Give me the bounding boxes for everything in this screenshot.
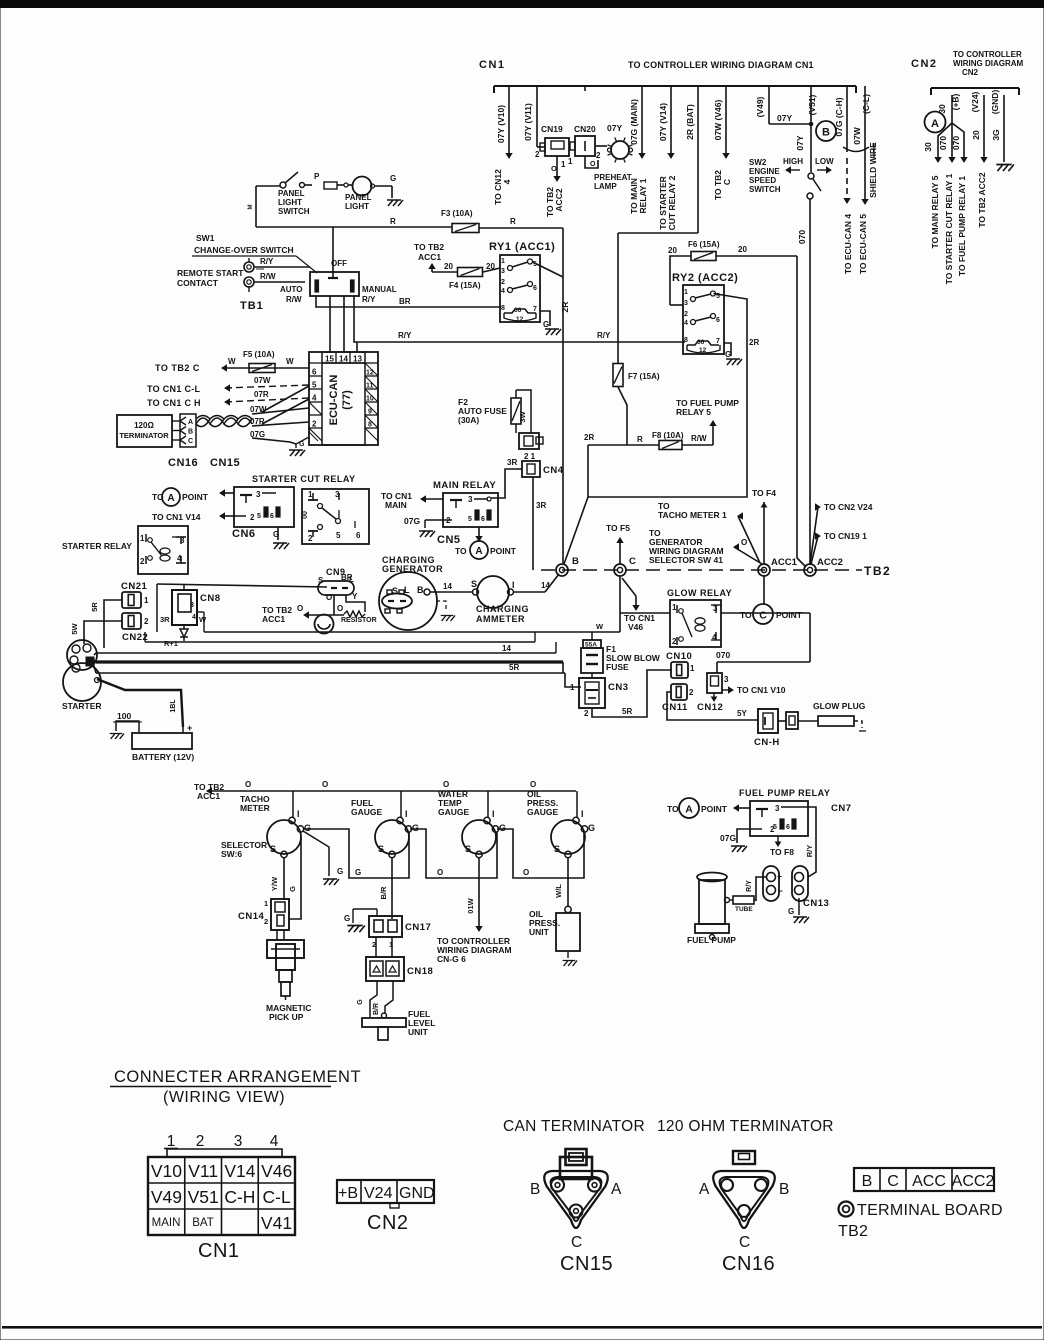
- svg-text:G: G: [337, 867, 343, 876]
- connector CN16 120 ohm terminator: [699, 1151, 789, 1275]
- svg-text:A: A: [611, 1181, 622, 1198]
- svg-text:3W: 3W: [518, 410, 527, 422]
- svg-text:+: +: [777, 871, 782, 881]
- svg-text:30: 30: [923, 142, 933, 152]
- svg-text:CN16: CN16: [168, 457, 198, 469]
- svg-text:PREHEAT: PREHEAT: [594, 173, 632, 182]
- wire auto side BR to RY1 pin8: [316, 296, 501, 307]
- svg-text:CAN TERMINATOR: CAN TERMINATOR: [503, 1118, 645, 1135]
- wire R/Y remote to switch: [254, 257, 310, 269]
- svg-text:2 1: 2 1: [524, 452, 536, 461]
- svg-text:TO F4: TO F4: [752, 488, 776, 498]
- connector CN11: [662, 684, 694, 713]
- terminator pins A B C: [172, 414, 196, 447]
- svg-text:G: G: [588, 823, 595, 833]
- svg-text:3: 3: [190, 602, 194, 609]
- svg-text:7: 7: [716, 338, 720, 345]
- svg-text:C: C: [722, 179, 732, 185]
- fuse F4 (15A): [432, 262, 500, 290]
- svg-text:070: 070: [716, 650, 730, 660]
- svg-text:V11: V11: [188, 1161, 218, 1181]
- svg-text:O: O: [437, 868, 443, 877]
- svg-text:3: 3: [724, 675, 729, 684]
- svg-text:O: O: [337, 604, 343, 613]
- svg-text:3: 3: [775, 804, 780, 813]
- svg-text:TERMINATOR: TERMINATOR: [119, 431, 169, 440]
- connector CN1 pin table: [148, 1133, 295, 1262]
- svg-text:07Y: 07Y: [607, 123, 622, 133]
- svg-text:MAIN: MAIN: [152, 1217, 181, 1229]
- svg-text:(77): (77): [341, 390, 353, 410]
- svg-text:1: 1: [690, 664, 695, 673]
- wire tacho S to CN14: [270, 858, 284, 899]
- ground CN17: [347, 926, 365, 933]
- svg-text:LIGHT: LIGHT: [345, 202, 369, 211]
- connector CN4: [507, 458, 564, 477]
- svg-text:TO CONTROLLER WIRING DIAGRAM: TO CONTROLLER WIRING DIAGRAM CN1: [628, 60, 814, 70]
- svg-text:S: S: [318, 576, 324, 585]
- gauge TACHO METER: [240, 791, 311, 858]
- fuse F8 (10A): [588, 431, 713, 450]
- svg-text:3: 3: [256, 490, 261, 499]
- ground ECU-CAN: [289, 437, 309, 456]
- svg-text:V14: V14: [224, 1161, 255, 1181]
- svg-text:R: R: [637, 435, 643, 444]
- note TO GENERATOR WIRING DIAGRAM SELECTOR SW 41: [649, 528, 762, 565]
- note TO FUEL PUMP RELAY 5: [676, 398, 739, 445]
- node C on TB2: [614, 556, 636, 576]
- svg-text:BR: BR: [341, 573, 353, 582]
- connector CN15 CAN terminator: [530, 1149, 622, 1275]
- motor starter: [62, 640, 102, 711]
- svg-text:ECU-CAN: ECU-CAN: [328, 375, 340, 426]
- svg-text:MANUAL: MANUAL: [362, 285, 397, 294]
- relay glow relay: [667, 588, 732, 647]
- svg-text:ACC1: ACC1: [197, 791, 220, 801]
- tube between pump and plug: [729, 896, 756, 913]
- svg-text:BAT: BAT: [192, 1217, 214, 1229]
- svg-text:GAUGE: GAUGE: [527, 807, 559, 817]
- lamp PANEL LIGHT: [345, 174, 396, 211]
- svg-text:TO CN1 V10: TO CN1 V10: [737, 685, 786, 695]
- svg-text:TO TB2: TO TB2: [414, 242, 444, 252]
- circle C point under ACC1: [740, 576, 803, 624]
- note TO F8: [770, 836, 794, 857]
- svg-text:1: 1: [501, 258, 505, 265]
- svg-text:CN18: CN18: [407, 966, 433, 977]
- relay CN5 main relay: [433, 480, 498, 527]
- svg-text:CN14: CN14: [238, 911, 265, 922]
- svg-text:5: 5: [312, 381, 317, 390]
- svg-text:G: G: [499, 823, 506, 833]
- svg-text:STARTER: STARTER: [62, 701, 102, 711]
- svg-text:1: 1: [140, 534, 145, 543]
- svg-text:CN1: CN1: [479, 59, 506, 71]
- svg-text:SPEED: SPEED: [749, 176, 776, 185]
- svg-text:POINT: POINT: [490, 546, 517, 556]
- svg-text:SW2: SW2: [749, 158, 767, 167]
- svg-text:CONTACT: CONTACT: [177, 278, 219, 288]
- svg-text:V46: V46: [261, 1161, 292, 1181]
- gauge OIL PRESS GAUGE: [527, 789, 595, 858]
- note TO CN1 MAIN: [381, 491, 443, 510]
- svg-text:PANEL: PANEL: [345, 193, 372, 202]
- svg-text:P: P: [314, 172, 320, 181]
- svg-text:TO CN2 V24: TO CN2 V24: [824, 502, 873, 512]
- svg-text:TO ECU-CAN 4: TO ECU-CAN 4: [843, 214, 853, 275]
- ground tacho G: [303, 831, 343, 885]
- wire fuel S to CN17 B/R: [379, 858, 392, 919]
- wire tacho G to CN14 pin2: [288, 837, 301, 919]
- svg-text:20: 20: [738, 245, 747, 254]
- svg-text:CN-G 6: CN-G 6: [437, 954, 466, 964]
- svg-text:F5 (10A): F5 (10A): [243, 350, 275, 359]
- svg-text:O: O: [741, 538, 747, 547]
- connector CN22: [122, 613, 149, 643]
- note TO F5: [606, 523, 630, 564]
- svg-text:07W (V46): 07W (V46): [713, 100, 723, 141]
- wire CN3 pin2 to CN10 5R: [592, 670, 672, 717]
- svg-text:TO F8: TO F8: [770, 847, 794, 857]
- wire water temp S to controller 01W: [466, 858, 482, 931]
- svg-text:(V24): (V24): [970, 91, 980, 112]
- note TO CN1 V46: [622, 578, 655, 632]
- svg-text:2: 2: [250, 513, 255, 522]
- svg-text:GLOW PLUG: GLOW PLUG: [813, 701, 866, 711]
- svg-text:15: 15: [325, 355, 334, 364]
- svg-text:F7 (15A): F7 (15A): [628, 372, 660, 381]
- svg-text:MAIN: MAIN: [385, 500, 407, 510]
- svg-text:A: A: [685, 804, 693, 816]
- svg-text:GND: GND: [399, 1185, 435, 1202]
- svg-text:POINT: POINT: [776, 610, 803, 620]
- svg-text:2: 2: [196, 1133, 205, 1150]
- wire generator B to ammeter S 14: [430, 582, 473, 592]
- svg-text:3: 3: [468, 495, 473, 504]
- svg-text:9: 9: [368, 409, 372, 416]
- svg-text:120Ω: 120Ω: [134, 421, 154, 430]
- svg-text:TO CN1 V14: TO CN1 V14: [152, 512, 201, 522]
- svg-text:O: O: [322, 780, 328, 789]
- wire CN7 pin2 to ground 07G: [720, 829, 750, 852]
- wire TO CN1 C H dashed: [147, 390, 309, 408]
- wire CN13 to ground G: [788, 898, 809, 923]
- svg-text:F4 (15A): F4 (15A): [449, 281, 481, 290]
- svg-text:LIGHT: LIGHT: [278, 198, 302, 207]
- terminal board TB2 table: [854, 1168, 994, 1191]
- svg-text:BR: BR: [399, 297, 411, 306]
- svg-text:O: O: [551, 164, 557, 173]
- svg-text:SW1: SW1: [196, 233, 215, 243]
- svg-text:WIRING DIAGRAM: WIRING DIAGRAM: [953, 59, 1024, 68]
- svg-text:3: 3: [684, 300, 688, 307]
- svg-text:B: B: [417, 585, 424, 595]
- svg-text:B/R: B/R: [373, 1003, 380, 1015]
- svg-text:B: B: [572, 556, 579, 567]
- svg-text:01W: 01W: [466, 897, 475, 913]
- relay RY2 (ACC2): [672, 272, 738, 354]
- svg-text:2R: 2R: [560, 302, 570, 313]
- wire 07Y (V14) to starter cut relay 2: [658, 91, 677, 230]
- svg-text:CN19: CN19: [541, 124, 563, 134]
- svg-text:TO CONTROLLER: TO CONTROLLER: [953, 50, 1022, 59]
- svg-text:20: 20: [668, 246, 677, 255]
- svg-text:(V49): (V49): [755, 96, 765, 117]
- svg-text:3G: 3G: [991, 129, 1001, 141]
- note TO CN2 V24: [810, 502, 873, 564]
- svg-text:R/Y: R/Y: [805, 845, 814, 858]
- svg-text:I: I: [297, 809, 300, 819]
- svg-text:7: 7: [533, 306, 537, 313]
- svg-text:PICK UP: PICK UP: [269, 1012, 304, 1022]
- fuse F7 (15A): [613, 233, 660, 445]
- ground CN5: [419, 531, 435, 537]
- connector CN-H: [754, 709, 780, 748]
- wire glow relay pin1 to C vertical: [620, 612, 670, 614]
- svg-text:S: S: [471, 579, 477, 589]
- svg-text:ACC1: ACC1: [262, 614, 285, 624]
- wire 14 bus y653: [96, 642, 556, 653]
- svg-text:12: 12: [516, 316, 524, 323]
- svg-text:CN15: CN15: [560, 1253, 613, 1275]
- svg-text:CN16: CN16: [722, 1253, 775, 1275]
- connector CN2 comb: [931, 88, 1019, 95]
- note TO TB2 ACC1: [414, 242, 444, 272]
- svg-text:O: O: [523, 868, 529, 877]
- svg-text:2R (BAT): 2R (BAT): [685, 104, 695, 140]
- connector CN2 pin table: [337, 1180, 435, 1234]
- svg-text:O: O: [590, 161, 596, 168]
- svg-text:ACC2: ACC2: [554, 188, 564, 211]
- connector CN10: [666, 651, 695, 678]
- svg-text:G: G: [543, 320, 549, 329]
- glow plug: [798, 701, 866, 731]
- wires terminator to ECU pins: [250, 386, 309, 444]
- svg-text:G: G: [788, 907, 794, 916]
- svg-text:G: G: [273, 530, 279, 539]
- note TO TACHO METER 1: [658, 501, 760, 563]
- svg-text:20: 20: [486, 262, 495, 271]
- svg-text:2: 2: [264, 917, 268, 926]
- wire CN2 3G (GND): [990, 90, 1004, 162]
- svg-text:A: A: [167, 493, 174, 504]
- svg-text:ENGINE: ENGINE: [749, 167, 780, 176]
- svg-text:TO MAIN RELAY 5: TO MAIN RELAY 5: [930, 175, 940, 248]
- svg-text:07W: 07W: [254, 376, 271, 385]
- wire 07W (C-L) to ECU-CAN 5: [852, 91, 871, 274]
- wire F6 right to TB2 ACC2: [797, 256, 806, 567]
- svg-text:CN2: CN2: [911, 58, 938, 70]
- svg-text:20: 20: [444, 262, 453, 271]
- svg-text:2: 2: [501, 279, 505, 286]
- svg-text:B: B: [862, 1173, 873, 1190]
- svg-text:R: R: [510, 217, 516, 226]
- svg-text:5: 5: [336, 531, 341, 540]
- svg-text:07W: 07W: [852, 126, 862, 144]
- svg-text:O: O: [297, 604, 303, 613]
- svg-text:R/Y: R/Y: [260, 257, 274, 266]
- svg-text:C: C: [629, 556, 636, 567]
- svg-text:STARTER RELAY: STARTER RELAY: [62, 541, 132, 551]
- svg-text:CN11: CN11: [662, 702, 688, 713]
- svg-text:CN10: CN10: [666, 651, 692, 662]
- connector CN1 comb: [494, 86, 865, 93]
- svg-text:66: 66: [514, 307, 522, 314]
- svg-text:4: 4: [192, 614, 196, 621]
- svg-text:R/Y: R/Y: [597, 331, 611, 340]
- svg-text:LOW: LOW: [815, 157, 834, 166]
- svg-text:3R: 3R: [536, 501, 546, 510]
- svg-text:CN2: CN2: [962, 68, 979, 77]
- ground RY1: [545, 329, 561, 335]
- svg-text:FUEL PUMP: FUEL PUMP: [687, 935, 736, 945]
- relay starter cut relay contact detail: [302, 489, 369, 544]
- svg-text:5W: 5W: [70, 622, 79, 634]
- svg-text:SHIELD WIRE: SHIELD WIRE: [868, 142, 878, 198]
- sensor fuel level unit: [357, 981, 435, 1040]
- svg-text:C: C: [739, 1234, 750, 1251]
- svg-text:RY1 (ACC1): RY1 (ACC1): [489, 241, 555, 253]
- svg-text:13: 13: [353, 355, 362, 364]
- ground oil press unit: [563, 961, 577, 966]
- svg-text:S: S: [554, 844, 560, 854]
- note SW2 ENGINE SPEED SWITCH: [749, 158, 781, 194]
- svg-text:2R: 2R: [584, 433, 594, 442]
- svg-text:12: 12: [699, 347, 707, 354]
- svg-text:3: 3: [234, 1133, 243, 1150]
- wire CN2 20 (V24): [970, 91, 987, 227]
- pump FUEL PUMP: [687, 873, 736, 946]
- 120 ohm terminator box: [117, 415, 172, 447]
- svg-text:V41: V41: [261, 1213, 292, 1233]
- connector CN8: [160, 584, 221, 625]
- svg-text:M: M: [248, 205, 254, 210]
- svg-text:ACC2: ACC2: [952, 1173, 995, 1190]
- wire CN4 3R down: [533, 477, 546, 570]
- svg-text:R: R: [390, 217, 396, 226]
- svg-text:S: S: [378, 844, 384, 854]
- svg-text:O: O: [443, 780, 449, 789]
- svg-text:6: 6: [533, 285, 537, 292]
- shield wire arc: [843, 142, 878, 198]
- note TO A POINT (CN6): [152, 488, 234, 506]
- svg-text:CN21: CN21: [121, 581, 148, 592]
- svg-text:2: 2: [584, 709, 589, 718]
- svg-text:REMOTE START: REMOTE START: [177, 268, 244, 278]
- node ACC1 on TB2: [758, 557, 798, 576]
- svg-text:6: 6: [356, 531, 361, 540]
- fuse F1 slow blow fuse: [581, 632, 661, 673]
- wire CN2 +B 30 fork: [923, 93, 967, 162]
- svg-text:10: 10: [366, 396, 374, 403]
- svg-text:TUBE: TUBE: [735, 906, 753, 913]
- svg-text:G: G: [412, 823, 419, 833]
- wire R bus from panel circuit: [248, 186, 452, 227]
- svg-text:METER: METER: [240, 803, 270, 813]
- svg-text:07Y (V11): 07Y (V11): [523, 103, 533, 141]
- svg-text:G: G: [357, 999, 364, 1005]
- svg-text:S: S: [270, 844, 276, 854]
- svg-text:07G: 07G: [404, 516, 420, 526]
- svg-text:R/Y: R/Y: [362, 295, 376, 304]
- wire RY2 pin7 to ground: [724, 343, 731, 359]
- wire CN5 pin2 to ground: [404, 516, 443, 528]
- svg-text:5R: 5R: [90, 602, 99, 612]
- svg-text:07G (MAIN): 07G (MAIN): [629, 99, 639, 145]
- resistor RESISTOR: [341, 595, 377, 624]
- svg-text:W/L: W/L: [554, 884, 563, 898]
- svg-text:8: 8: [684, 337, 688, 344]
- svg-text:14: 14: [443, 582, 452, 591]
- svg-text:G: G: [344, 914, 350, 923]
- note TO F4: [752, 488, 776, 564]
- svg-text:6: 6: [481, 516, 485, 523]
- svg-text:TB2: TB2: [864, 564, 891, 578]
- svg-text:B: B: [779, 1181, 789, 1198]
- svg-text:1: 1: [561, 160, 566, 169]
- svg-text:3R: 3R: [507, 458, 517, 467]
- connector CN9: [318, 567, 358, 602]
- svg-text:C: C: [759, 610, 767, 622]
- svg-text:CN20: CN20: [574, 124, 596, 134]
- svg-text:R/W: R/W: [286, 295, 302, 304]
- svg-text:F8 (10A): F8 (10A): [652, 431, 684, 440]
- relay starter relay: [62, 526, 188, 574]
- svg-text:I: I: [581, 809, 584, 819]
- svg-text:O: O: [326, 593, 332, 602]
- wire ACC2 down to CN12 070: [716, 613, 810, 673]
- svg-text:FUEL PUMP RELAY: FUEL PUMP RELAY: [739, 788, 830, 798]
- svg-text:L: L: [404, 585, 410, 595]
- wire (V49): [755, 91, 813, 126]
- svg-text:R/W: R/W: [691, 434, 707, 443]
- svg-text:6: 6: [786, 824, 790, 831]
- svg-text:I: I: [512, 580, 515, 590]
- wire CN5 to A point: [476, 527, 482, 541]
- svg-text:(WIRING VIEW): (WIRING VIEW): [163, 1089, 285, 1106]
- wire 07G (MAIN) to main relay 1: [629, 91, 648, 214]
- svg-text:B: B: [188, 429, 193, 436]
- svg-text:5: 5: [257, 513, 261, 520]
- svg-text:CN2: CN2: [367, 1212, 409, 1234]
- svg-text:07Y: 07Y: [777, 113, 792, 123]
- svg-text:CN12: CN12: [697, 702, 723, 713]
- svg-text:1: 1: [568, 157, 573, 166]
- wire CN20 to preheat lamp: [585, 146, 607, 168]
- svg-text:R/Y: R/Y: [398, 331, 412, 340]
- wire 2R (BAT): [618, 91, 698, 233]
- svg-text:S: S: [392, 586, 398, 596]
- svg-text:CN6: CN6: [232, 528, 256, 540]
- svg-text:2: 2: [684, 311, 688, 318]
- svg-text:TO: TO: [740, 610, 752, 620]
- wire 5R CN21 to starter: [90, 600, 122, 648]
- wire 5W CN22 to starter: [70, 621, 122, 644]
- svg-text:V10: V10: [151, 1161, 182, 1181]
- terminal TB1 remote start contact: [177, 258, 264, 312]
- wire switch top to R bus: [332, 227, 334, 272]
- svg-text:V49: V49: [151, 1187, 182, 1207]
- svg-text:6: 6: [312, 368, 317, 377]
- svg-text:B: B: [822, 127, 830, 139]
- note TO A POINT (CN7): [667, 798, 750, 818]
- svg-text:W: W: [228, 357, 236, 366]
- svg-text:CN13: CN13: [803, 898, 829, 909]
- fuse F5 (10A) row TO TB2 C: [155, 350, 309, 373]
- svg-text:LAMP: LAMP: [594, 182, 617, 191]
- svg-text:4: 4: [684, 320, 688, 327]
- svg-text:14: 14: [541, 581, 550, 590]
